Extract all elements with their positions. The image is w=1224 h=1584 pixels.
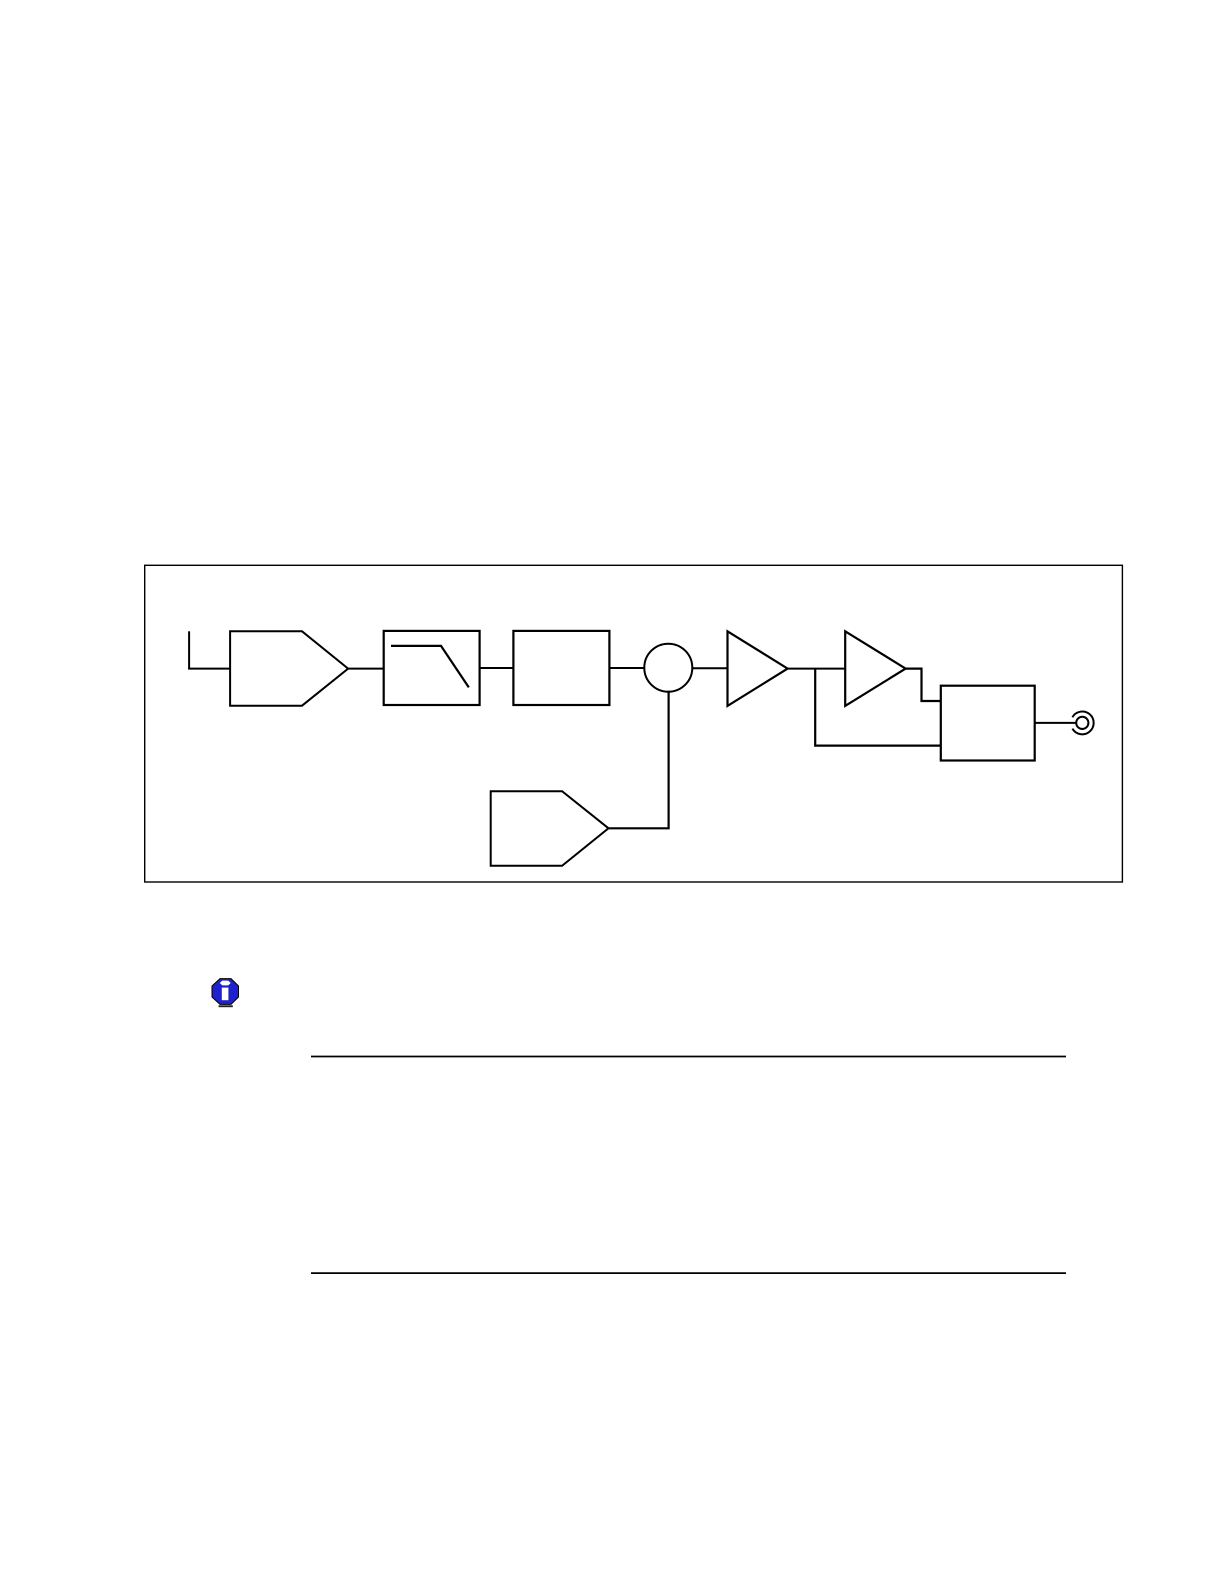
wire input to amplifier A1 [188, 668, 230, 670]
wire A1 to low-pass filter [348, 668, 384, 670]
note rule top [311, 1056, 1066, 1058]
info icon [212, 979, 239, 1008]
note rule bottom [311, 1272, 1066, 1274]
input port stub [188, 631, 190, 668]
wire block B1 to mixer [609, 667, 645, 669]
output connector J1 [1072, 711, 1093, 734]
amplifier A2 (triangle) [728, 631, 788, 706]
wire bypass junction down to block B2 [815, 669, 941, 746]
local oscillator LO (pentagon) [491, 791, 609, 866]
amplifier A1 (pentagon) [230, 631, 348, 705]
mixer M1 [644, 644, 692, 692]
wire A2 output to amplifier A3 [788, 668, 846, 670]
wire LO to mixer [609, 691, 669, 829]
block B1 [513, 631, 609, 705]
wire block B2 to output connector [1035, 722, 1077, 724]
low-pass filter FL1 [384, 631, 480, 705]
amplifier A3 (triangle) [845, 631, 905, 706]
wire A3 output step down into block B2 [906, 669, 941, 701]
wire filter to block B1 [480, 667, 514, 669]
block B2 [941, 686, 1035, 761]
wire mixer to amplifier A2 [692, 667, 727, 669]
